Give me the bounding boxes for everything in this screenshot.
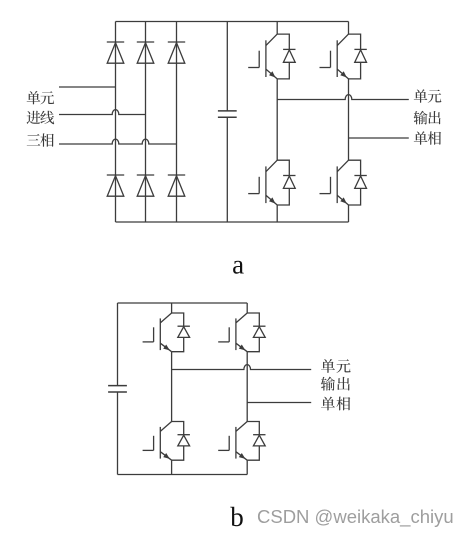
transistor Q1 (IGBT): [248, 34, 277, 79]
transistor Q8 (IGBT): [218, 422, 247, 461]
diode D2 (upper rectifier, leg 2): [137, 42, 154, 63]
transistor Q5 (IGBT): [143, 313, 172, 352]
diode D3 (upper rectifier, leg 3): [168, 42, 185, 63]
transistor Q3 (IGBT): [248, 160, 277, 205]
diode D12 (antiparallel with Q6): [247, 313, 265, 352]
wire: left inverter leg segments (circuit a): [276, 22, 278, 223]
diode D1 (upper rectifier, leg 1): [107, 42, 124, 63]
svg-text:a: a: [232, 249, 244, 279]
wire: input phase A line: [59, 86, 116, 88]
diode D4 (lower rectifier, leg 1): [107, 175, 124, 196]
capacitor C2 (DC-link, circuit b): [117, 303, 119, 475]
label: output text 单元 (circuit b): [321, 359, 351, 373]
wire: bottom bus (circuit b): [118, 474, 248, 476]
wire: rectifier leg phase A: [115, 22, 117, 223]
diode D14 (antiparallel with Q8): [247, 422, 265, 461]
transistor Q4 (IGBT): [320, 160, 349, 205]
svg-text:b: b: [230, 502, 244, 532]
label: output text 输出: [414, 111, 441, 125]
wire: right inverter leg segments (circuit b): [246, 303, 248, 475]
diode D7 (antiparallel with Q1): [277, 34, 295, 79]
wire: rectifier leg phase B: [145, 22, 147, 223]
wire: left inverter leg segments (circuit b): [171, 303, 173, 475]
label: output text 单元: [414, 89, 442, 103]
svg-text:CSDN @weikaka_chiyu: CSDN @weikaka_chiyu: [257, 506, 454, 528]
diode D6 (lower rectifier, leg 3): [168, 175, 185, 196]
wire: rectifier leg phase C: [176, 22, 178, 223]
label: input text 三相: [27, 133, 54, 146]
label: output text 输出 (circuit b): [321, 377, 350, 391]
wire: right inverter leg segments (circuit a): [348, 22, 350, 223]
diode D11 (antiparallel with Q5): [172, 313, 190, 352]
label: output text 单相 (circuit b): [321, 397, 350, 411]
wire: input phase C line (hops over legs A,B): [59, 139, 177, 144]
transistor Q6 (IGBT): [218, 313, 247, 352]
diode D8 (antiparallel with Q2): [349, 34, 367, 79]
label: input text 进线: [27, 111, 55, 124]
diode D13 (antiparallel with Q7): [172, 422, 190, 461]
diode D5 (lower rectifier, leg 2): [137, 175, 154, 196]
label: input text 单元: [27, 91, 54, 105]
wire: DC- bottom bus (circuit a): [116, 221, 349, 223]
wire: output node N4 (circuit b): [247, 402, 311, 404]
wire: output node N1 (hop over right leg): [277, 95, 409, 100]
diode D9 (antiparallel with Q3): [277, 160, 295, 205]
label: output text 单相: [414, 131, 441, 145]
capacitor C1 (DC-link, circuit a): [226, 22, 228, 223]
wire: output node N2: [349, 137, 409, 139]
wire: top bus (circuit b): [118, 302, 248, 304]
wire: input phase B line (hop over leg A): [59, 110, 146, 115]
transistor Q7 (IGBT): [143, 422, 172, 461]
diode D10 (antiparallel with Q4): [349, 160, 367, 205]
transistor Q2 (IGBT): [320, 34, 349, 79]
wire: DC+ top bus (circuit a): [116, 21, 349, 23]
wire: output node N3 (hop over right leg, circuit b): [172, 365, 312, 370]
